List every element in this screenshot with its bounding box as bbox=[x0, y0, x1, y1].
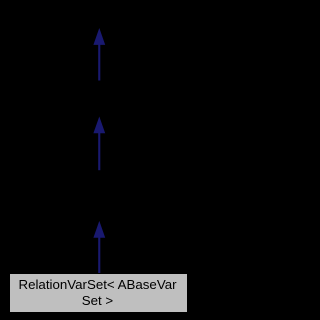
node box RelationVarSet< ABaseVarSet > (current class, grey filled) bbox=[9, 273, 188, 313]
inheritance arrow 2 (middle edge) bbox=[93, 117, 105, 171]
node label text bbox=[9, 277, 186, 309]
inheritance arrow 1 (topmost edge) bbox=[93, 28, 105, 81]
inheritance arrow 3 (edge into RelationVarSet node) bbox=[93, 221, 105, 274]
